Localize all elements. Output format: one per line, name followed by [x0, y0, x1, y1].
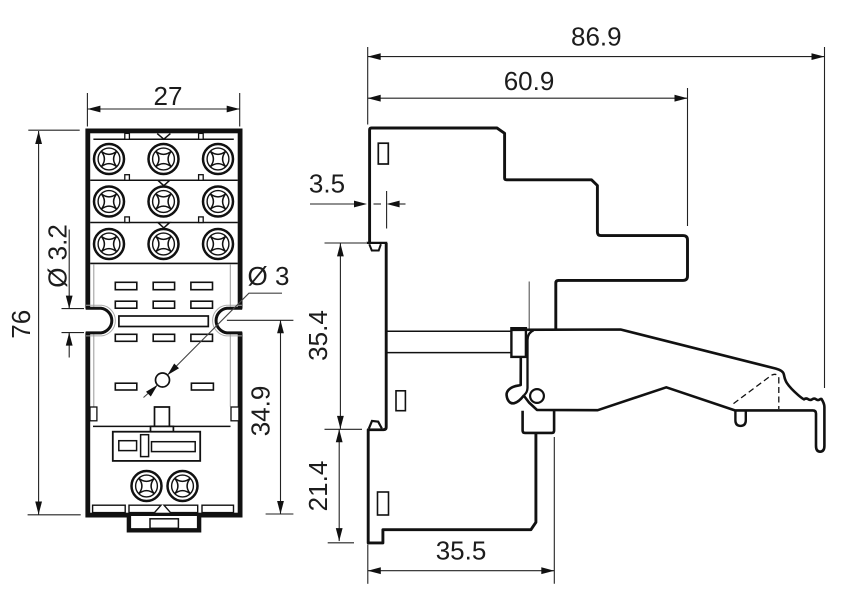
bottom screw left [132, 471, 162, 501]
svg-text:Ø 3.2: Ø 3.2 [43, 224, 73, 288]
vent slots row D [115, 383, 213, 390]
side slots [378, 143, 406, 515]
DIMENSION 35.4 [303, 243, 366, 429]
vent slots row B [115, 301, 212, 308]
front view body outline [88, 131, 240, 515]
side recess white gaps in border [83, 309, 246, 333]
rail tooth [369, 244, 381, 250]
rod lines [387, 331, 512, 352]
DIMENSION 21.4 [303, 429, 354, 543]
inner wall thin line [528, 282, 530, 330]
top vent line [93, 133, 233, 139]
DIMENSION O3.2 [43, 224, 84, 357]
bottom foot [129, 516, 199, 530]
pivot block [511, 328, 526, 357]
svg-text:86.9: 86.9 [571, 22, 622, 52]
separator line 2 [90, 217, 238, 228]
svg-text:76: 76 [6, 310, 36, 339]
screw terminals row 3 [94, 229, 233, 259]
right mounting recess [213, 305, 243, 336]
inner wall thin lines [94, 264, 231, 406]
left mounting recess O3.2 [86, 305, 116, 336]
retaining clip outline [507, 330, 825, 452]
clip housing [523, 411, 555, 433]
DIMENSION 34.9 [227, 320, 294, 514]
center hole O3 [156, 373, 170, 387]
clip neck right edge [524, 330, 533, 395]
rail ledge line [367, 242, 388, 244]
vent slots row C [115, 334, 212, 341]
DIMENSION 60.9 [368, 66, 688, 226]
screws area bottom line [90, 262, 238, 264]
svg-text:34.9: 34.9 [246, 386, 276, 437]
center long slot [119, 316, 208, 327]
bottom vent rects [93, 505, 234, 512]
hook eye [735, 411, 745, 426]
side view upper profile [370, 128, 688, 330]
DIMENSION 86.9 [368, 22, 825, 389]
front face and lower outline [368, 243, 536, 543]
svg-text:3.5: 3.5 [309, 169, 345, 199]
DIMENSION 27 [87, 81, 239, 127]
DIMENSION O3 label [248, 261, 290, 291]
label plate rect [113, 432, 200, 461]
screw terminals row 2 [94, 187, 233, 217]
svg-text:Ø 3: Ø 3 [248, 261, 290, 291]
clip notch zigzag [0, 0, 1, 1]
pivot circle [530, 389, 544, 403]
leader line O3 [144, 293, 283, 397]
bottom screw right [168, 471, 198, 501]
svg-text:60.9: 60.9 [504, 66, 555, 96]
lower section line [93, 425, 231, 427]
vent slots row A [115, 282, 212, 289]
hidden edges dashed [734, 374, 779, 409]
svg-text:35.4: 35.4 [303, 310, 333, 361]
DIMENSION 3.5 [309, 169, 406, 229]
svg-text:21.4: 21.4 [303, 461, 333, 512]
DIMENSION 35.5 [368, 437, 555, 584]
svg-text:27: 27 [154, 81, 183, 111]
screw terminals row 1 [94, 144, 233, 174]
rail bump [369, 421, 382, 429]
side notch rects [90, 407, 239, 421]
svg-text:35.5: 35.5 [436, 536, 487, 566]
DIMENSION 76 [6, 130, 81, 515]
center tab [151, 407, 174, 432]
separator line 1 [90, 175, 238, 186]
